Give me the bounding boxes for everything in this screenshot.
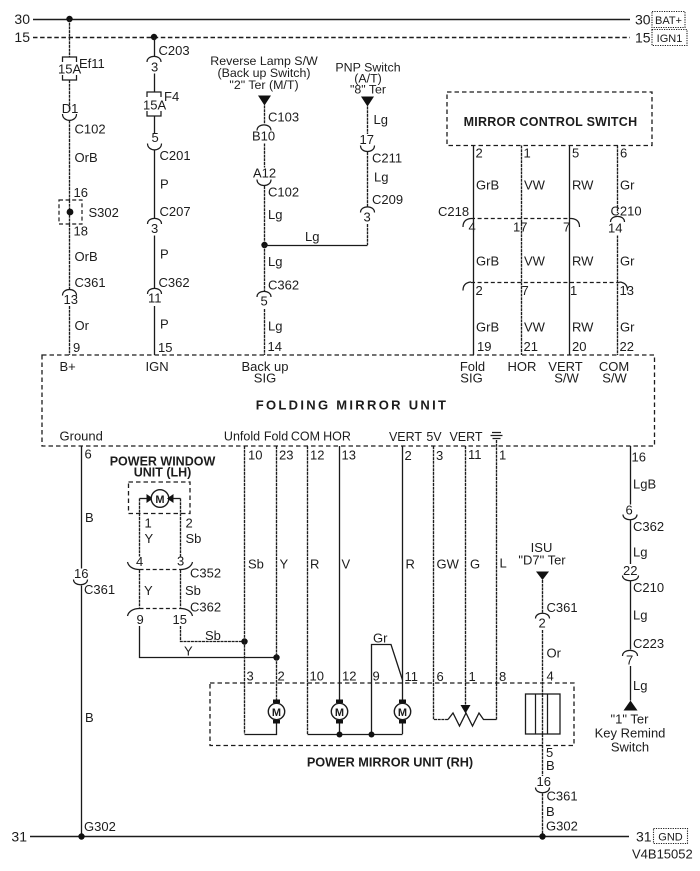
power window unit box (129, 482, 191, 514)
svg-text:3: 3 (151, 221, 158, 236)
svg-text:15: 15 (173, 612, 187, 627)
connector C352 row (128, 554, 222, 581)
node Sb/Unfold (241, 638, 247, 644)
svg-text:15: 15 (635, 30, 651, 46)
svg-text:Y: Y (280, 557, 289, 572)
svg-text:C362: C362 (633, 519, 664, 534)
svg-text:Gr: Gr (620, 320, 635, 335)
connector C362 row (128, 600, 222, 628)
svg-text:3: 3 (247, 669, 254, 684)
svg-text:C362: C362 (159, 275, 190, 290)
svg-text:Switch: Switch (611, 740, 649, 755)
wire Lg (631, 520, 648, 564)
svg-text:HOR: HOR (508, 359, 537, 374)
svg-text:3: 3 (364, 210, 371, 225)
wire Or to pin 4 (543, 630, 562, 694)
svg-text:10: 10 (248, 448, 262, 463)
fuse Ef11 15A (58, 56, 105, 80)
svg-text:13: 13 (342, 448, 356, 463)
svg-text:2: 2 (476, 146, 483, 161)
svg-text:4: 4 (547, 669, 554, 684)
svg-text:B: B (85, 510, 94, 525)
svg-text:9: 9 (373, 669, 380, 684)
motor A fold (245, 641, 285, 735)
node backup junction (261, 242, 267, 248)
svg-text:Or: Or (547, 646, 562, 661)
svg-text:C361: C361 (547, 789, 578, 804)
svg-text:2: 2 (405, 448, 412, 463)
header ISU D7 Ter (518, 540, 566, 568)
svg-text:16: 16 (74, 566, 88, 581)
svg-text:30: 30 (14, 11, 30, 27)
wire P to IGN pin 15 (155, 306, 173, 355)
wire Lg (631, 581, 648, 650)
svg-text:10: 10 (310, 669, 324, 684)
svg-text:COM: COM (291, 430, 320, 444)
IGN1 label box (652, 30, 687, 46)
svg-text:Key Remind: Key Remind (595, 726, 666, 741)
svg-text:31: 31 (636, 829, 652, 845)
connector C207 pin 3 (148, 204, 191, 236)
svg-text:M: M (272, 707, 281, 719)
wire LgB right column (631, 446, 657, 505)
svg-text:G302: G302 (84, 819, 116, 834)
svg-text:G: G (470, 557, 480, 572)
svg-text:GW: GW (437, 557, 460, 572)
svg-text:FOLDING MIRROR UNIT: FOLDING MIRROR UNIT (256, 398, 448, 413)
wire Fold Y (277, 446, 294, 658)
svg-text:Lg: Lg (374, 112, 388, 127)
key remind block (526, 694, 561, 734)
BAT+ label box (652, 12, 685, 28)
svg-text:5V: 5V (426, 430, 442, 444)
connector C361 pin 16 (ground col) (74, 566, 116, 597)
ground symbol inside FMU (491, 433, 503, 439)
svg-text:11: 11 (468, 447, 482, 462)
svg-text:R: R (310, 557, 319, 572)
svg-text:4: 4 (469, 220, 476, 235)
svg-text:GrB: GrB (476, 320, 499, 335)
svg-text:RW: RW (572, 178, 594, 193)
wire Lg (368, 107, 388, 135)
svg-text:SIG: SIG (460, 371, 482, 386)
svg-text:Ground: Ground (60, 429, 103, 444)
wire B to G302 (ISU col) (543, 794, 578, 837)
svg-text:15A: 15A (58, 62, 81, 77)
folding mirror unit box (42, 355, 655, 446)
connector C210 pin 14 (608, 204, 642, 356)
wire PWU pin 1 Y (140, 499, 154, 557)
svg-text:Lg: Lg (268, 207, 282, 222)
svg-text:Lg: Lg (374, 170, 388, 185)
svg-text:M: M (335, 707, 344, 719)
node on bus 30 (66, 16, 72, 22)
wire OrB (70, 121, 98, 201)
wire OrB lower (70, 224, 98, 290)
svg-text:1: 1 (145, 516, 152, 531)
svg-text:C102: C102 (268, 185, 299, 200)
svg-text:"D7" Ter: "D7" Ter (518, 553, 566, 568)
svg-text:7: 7 (626, 653, 633, 668)
header Reverse Lamp S/W (210, 54, 318, 92)
svg-text:2: 2 (539, 616, 546, 631)
svg-text:UNIT (LH): UNIT (LH) (134, 466, 192, 480)
wire Lg to Back up SIG pin 14 (265, 309, 283, 355)
svg-text:2: 2 (186, 516, 193, 531)
svg-text:7: 7 (563, 220, 570, 235)
connector C210 pin 22 (right col) (623, 563, 665, 595)
svg-text:C361: C361 (84, 582, 115, 597)
wire labels GrB VW RW Gr row3 (476, 320, 635, 335)
svg-text:Lg: Lg (633, 608, 647, 623)
svg-text:GrB: GrB (476, 178, 499, 193)
connector C361 pin 13 (63, 275, 106, 307)
svg-text:Or: Or (75, 318, 90, 333)
svg-text:31: 31 (11, 829, 27, 845)
svg-text:B: B (85, 710, 94, 725)
svg-text:19: 19 (477, 339, 491, 354)
svg-text:13: 13 (64, 292, 78, 307)
connector C103 pin B10 (252, 106, 299, 144)
svg-text:A12: A12 (253, 166, 276, 181)
svg-text:VERT: VERT (449, 430, 482, 444)
wire (264, 144, 266, 168)
svg-text:C218: C218 (438, 204, 469, 219)
wire B to G302 (82, 586, 116, 837)
wire PWU pin 2 Sb (181, 499, 202, 557)
connector C218 row (438, 204, 580, 235)
wires Y Sb between connectors (140, 570, 201, 608)
wire B pin 5 (543, 734, 555, 776)
svg-text:Sb: Sb (205, 628, 221, 643)
source triangle (361, 97, 374, 107)
key remind switch text (595, 712, 666, 755)
wire MCS pin 6 Gr (618, 146, 636, 214)
motor PWU (140, 490, 181, 508)
svg-text:9: 9 (73, 340, 80, 355)
svg-text:C223: C223 (633, 636, 664, 651)
svg-text:Ef11: Ef11 (79, 56, 105, 71)
svg-text:LgB: LgB (633, 477, 656, 492)
connector C362 pin 6 (right col) (623, 503, 664, 535)
power window unit title (110, 455, 216, 480)
svg-text:11: 11 (148, 291, 162, 306)
bus 15 rail (14, 29, 650, 46)
svg-text:Sb: Sb (185, 583, 201, 598)
connector C209 pin 3 (361, 192, 404, 225)
svg-text:B+: B+ (60, 359, 76, 374)
connector A12/C102 (253, 166, 299, 200)
connector row C218-2 (463, 282, 634, 298)
svg-text:IGN: IGN (146, 359, 169, 374)
svg-text:M: M (398, 707, 407, 719)
wire VERT2 G (466, 446, 482, 683)
svg-text:1: 1 (469, 669, 476, 684)
svg-text:GrB: GrB (476, 254, 499, 269)
svg-text:HOR: HOR (323, 430, 351, 444)
wire P (155, 236, 169, 289)
svg-text:C211: C211 (372, 151, 402, 166)
svg-text:C362: C362 (190, 600, 221, 615)
svg-text:15A: 15A (143, 98, 166, 113)
svg-text:23: 23 (279, 448, 293, 463)
wire Or to B+ pin 9 (70, 306, 90, 355)
svg-text:Lg: Lg (633, 545, 647, 560)
svg-text:Unfold: Unfold (224, 430, 260, 444)
wire MCS pin 1 VW (522, 146, 546, 356)
wire Y jog to Fold (140, 626, 277, 659)
svg-text:16: 16 (632, 450, 646, 465)
connector C203 pin 3 (147, 37, 190, 75)
node on bus 15 (151, 34, 157, 40)
svg-text:1: 1 (524, 146, 531, 161)
svg-text:C203: C203 (159, 43, 190, 58)
svg-text:POWER MIRROR UNIT (RH): POWER MIRROR UNIT (RH) (307, 756, 473, 770)
svg-text:8: 8 (499, 669, 506, 684)
svg-text:C102: C102 (75, 122, 106, 137)
svg-text:20: 20 (572, 339, 586, 354)
svg-text:RW: RW (572, 320, 594, 335)
svg-text:4: 4 (136, 554, 143, 569)
wire Unfold Sb (245, 446, 264, 641)
svg-text:Lg: Lg (305, 229, 319, 244)
source triangle (258, 96, 271, 106)
wire L from ground symbol (497, 440, 507, 683)
node pin9 bottom (369, 732, 375, 738)
connector C201 pin 5 (148, 130, 191, 163)
wire Ground pin 6 (82, 446, 94, 569)
svg-text:9: 9 (137, 612, 144, 627)
connector D1/C102 (62, 101, 106, 137)
svg-text:18: 18 (74, 224, 88, 239)
motor C vertical (394, 683, 410, 734)
svg-text:OrB: OrB (75, 150, 98, 165)
key remind triangle (624, 701, 638, 711)
svg-text:P: P (160, 317, 169, 332)
wire (154, 74, 156, 93)
svg-text:11: 11 (405, 669, 419, 684)
svg-text:Fold: Fold (264, 430, 288, 444)
svg-text:3: 3 (151, 60, 158, 75)
svg-text:6: 6 (620, 146, 627, 161)
svg-text:22: 22 (623, 563, 637, 578)
node Y/Fold (273, 654, 279, 660)
wire (69, 80, 71, 111)
wire HOR V (340, 446, 356, 683)
svg-text:6: 6 (437, 669, 444, 684)
wire col1 top (69, 19, 71, 57)
wire labels GrB VW RW Gr row2 (476, 254, 635, 269)
svg-text:1: 1 (499, 448, 506, 463)
svg-text:B10: B10 (252, 129, 275, 144)
connector C361 pin 2 (ISU) (536, 580, 578, 631)
svg-text:F4: F4 (164, 89, 179, 104)
svg-text:C362: C362 (268, 278, 299, 293)
svg-text:C352: C352 (190, 566, 221, 581)
svg-text:30: 30 (635, 12, 651, 28)
svg-text:V4B15052: V4B15052 (632, 847, 693, 862)
wire (154, 116, 156, 133)
svg-text:P: P (160, 247, 169, 262)
svg-text:Lg: Lg (268, 254, 282, 269)
wire Lg (265, 186, 283, 245)
svg-text:P: P (160, 177, 169, 192)
motor B horizontal (331, 683, 347, 734)
svg-text:MIRROR CONTROL SWITCH: MIRROR CONTROL SWITCH (464, 115, 638, 129)
wire Sb jog to Unfold (181, 626, 245, 643)
svg-text:"1" Ter: "1" Ter (611, 712, 650, 727)
wire Gr jog pin9 to pin11 (372, 631, 403, 684)
svg-text:S/W: S/W (554, 371, 579, 386)
svg-text:Gr: Gr (620, 254, 635, 269)
svg-text:15: 15 (158, 340, 172, 355)
wire Lg below junction (265, 245, 283, 291)
svg-text:C361: C361 (547, 600, 578, 615)
svg-text:Y: Y (144, 583, 153, 598)
svg-text:"2" Ter (M/T): "2" Ter (M/T) (229, 78, 298, 92)
svg-text:D1: D1 (62, 101, 79, 116)
svg-text:OrB: OrB (75, 249, 98, 264)
splice S302 (59, 200, 119, 224)
svg-text:13: 13 (620, 283, 634, 298)
svg-text:Sb: Sb (248, 557, 264, 572)
svg-text:"8" Ter: "8" Ter (350, 83, 386, 97)
header PNP Switch (335, 61, 400, 97)
svg-text:12: 12 (342, 669, 356, 684)
wire MCS pin 2 GrB (474, 146, 500, 356)
svg-text:C103: C103 (268, 110, 299, 125)
node G302 right (539, 833, 545, 839)
svg-text:L: L (500, 556, 507, 571)
svg-text:3: 3 (177, 554, 184, 569)
node G302 (78, 833, 84, 839)
svg-text:2: 2 (476, 283, 483, 298)
svg-text:3: 3 (436, 448, 443, 463)
mirror control switch box (447, 92, 652, 146)
PMU pin labels (247, 669, 507, 685)
svg-text:5: 5 (152, 130, 159, 145)
svg-text:16: 16 (74, 185, 88, 200)
wire 5V GW (434, 446, 460, 683)
svg-text:C201: C201 (160, 148, 191, 163)
svg-text:RW: RW (572, 254, 594, 269)
svg-text:R: R (406, 557, 415, 572)
wire Lg jog to PNP (265, 229, 368, 246)
connector C362 pin 5 (257, 278, 299, 309)
svg-text:VW: VW (524, 320, 546, 335)
svg-text:C210: C210 (633, 580, 664, 595)
svg-text:VW: VW (524, 254, 546, 269)
wire VERT R (403, 446, 415, 683)
svg-text:22: 22 (620, 339, 634, 354)
wire down to junction (367, 224, 369, 245)
svg-text:S302: S302 (89, 205, 119, 220)
svg-text:Gr: Gr (620, 178, 635, 193)
svg-text:Gr: Gr (373, 631, 388, 646)
svg-text:M: M (155, 494, 164, 506)
ISU triangle (536, 572, 549, 581)
fuse F4 15A (143, 89, 179, 116)
svg-text:C209: C209 (372, 192, 403, 207)
svg-text:17: 17 (513, 220, 527, 235)
FMU pins 19 21 20 22 (477, 339, 634, 354)
connector C223 pin 7 (right col) (623, 636, 665, 668)
svg-text:Y: Y (184, 644, 193, 659)
bus 30 rail (14, 11, 650, 28)
wire P (155, 150, 169, 218)
svg-text:C207: C207 (160, 204, 191, 219)
svg-text:21: 21 (524, 339, 538, 354)
svg-text:14: 14 (608, 221, 622, 236)
FMU terminal names bottom (60, 429, 483, 445)
svg-text:2: 2 (278, 669, 285, 684)
svg-text:Sb: Sb (186, 531, 202, 546)
svg-text:5: 5 (261, 294, 268, 309)
svg-text:14: 14 (268, 339, 282, 354)
svg-text:12: 12 (310, 448, 324, 463)
GND label box (654, 829, 688, 844)
wire motor common bottom (308, 683, 403, 735)
power mirror unit box (210, 683, 574, 770)
svg-text:16: 16 (537, 774, 551, 789)
svg-text:5: 5 (572, 146, 579, 161)
svg-text:VERT: VERT (389, 430, 422, 444)
svg-text:GND: GND (658, 832, 683, 844)
svg-text:17: 17 (360, 132, 374, 147)
svg-text:7: 7 (522, 283, 529, 298)
potentiometer feedback (434, 683, 497, 726)
connector C361 pin 16 (ISU col) (536, 774, 578, 804)
svg-text:B: B (546, 758, 555, 773)
svg-text:1: 1 (570, 283, 577, 298)
wire COM R (308, 446, 325, 683)
svg-text:S/W: S/W (602, 371, 627, 386)
svg-text:15: 15 (14, 29, 30, 45)
svg-text:C361: C361 (75, 275, 106, 290)
svg-text:Y: Y (145, 531, 154, 546)
wire Lg to key remind switch (631, 666, 648, 701)
node motor B bottom (337, 732, 343, 738)
svg-text:B: B (546, 804, 555, 819)
bus 31 rail (11, 829, 651, 845)
svg-text:V: V (342, 557, 351, 572)
wire MCS pin 5 RW (570, 146, 595, 356)
svg-text:BAT+: BAT+ (655, 15, 682, 27)
svg-text:SIG: SIG (254, 371, 276, 386)
connector C211 pin 17 (360, 132, 403, 166)
svg-text:6: 6 (626, 503, 633, 518)
svg-text:6: 6 (85, 447, 92, 462)
FMU terminal names top (60, 359, 630, 386)
svg-text:Lg: Lg (268, 319, 282, 334)
svg-text:Lg: Lg (633, 678, 647, 693)
wire Lg (368, 152, 389, 207)
svg-text:IGN1: IGN1 (657, 33, 683, 45)
svg-text:G302: G302 (546, 819, 578, 834)
svg-text:VW: VW (524, 178, 546, 193)
connector C362 pin 11 (148, 275, 190, 306)
